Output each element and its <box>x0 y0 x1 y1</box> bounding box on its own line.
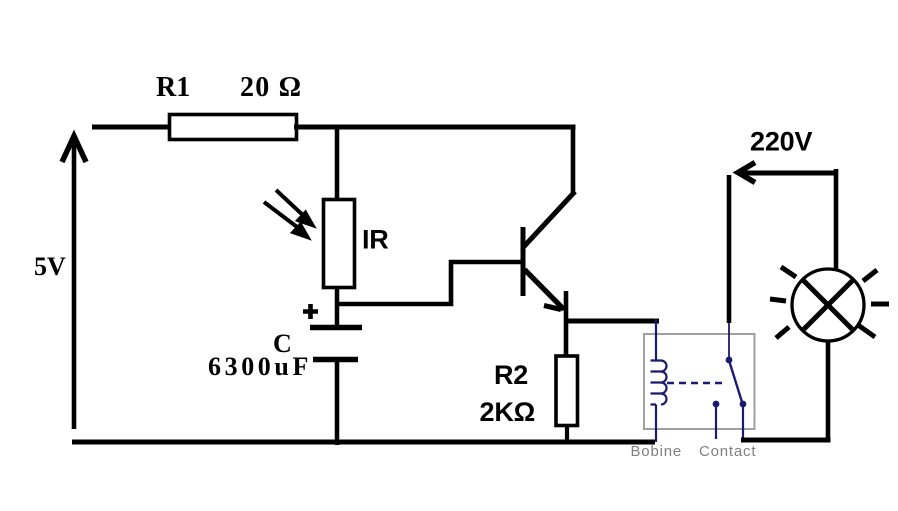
wire: 220V left drop to relay contact <box>727 175 732 323</box>
220V arrow <box>738 163 836 183</box>
svg-text:Bobine: Bobine <box>631 443 683 460</box>
wire: capacitor to ground rail <box>335 360 340 445</box>
wire: emitter down to R2 <box>564 291 569 358</box>
svg-text:220V: 220V <box>750 127 812 157</box>
relay switch: right contact dot <box>740 401 747 408</box>
5V source arrow <box>62 136 86 429</box>
svg-text:IR: IR <box>362 225 389 255</box>
light arrow 1 into IR <box>276 190 314 226</box>
svg-text:20 Ω: 20 Ω <box>240 72 302 103</box>
lamp ray lower-right <box>858 325 875 337</box>
relay box <box>644 334 755 429</box>
wire: 220V right drop to lamp <box>834 169 839 270</box>
wire: IR to capacitor top plate <box>335 286 340 327</box>
wire: junction drop to IR <box>335 127 340 201</box>
relay coil (Bobine) <box>651 319 667 442</box>
light arrow 2 into IR <box>264 202 309 238</box>
lamp ray lower-left <box>776 327 789 338</box>
wire: emitter node to relay coil <box>566 319 659 324</box>
wire: 5V feed to R1 <box>92 125 172 130</box>
wire: node to transistor base (with step) <box>337 262 521 304</box>
lamp L1 circle <box>792 269 864 341</box>
lamp ray left <box>770 299 786 301</box>
capacitor C plus sign <box>303 304 318 319</box>
transistor Q1 base bar <box>521 227 526 296</box>
relay switch: centre contact dot <box>713 401 720 408</box>
svg-text:6300uF: 6300uF <box>208 352 312 381</box>
transistor Q1 collector diagonal <box>524 192 576 248</box>
svg-text:Contact: Contact <box>699 443 756 460</box>
relay switch: right contact lead <box>742 406 744 438</box>
capacitor C top plate <box>310 325 362 331</box>
wire: collector riser to top rail <box>571 127 576 194</box>
photoresistor IR <box>324 200 355 288</box>
resistor R2 <box>556 356 578 426</box>
wire: lamp bottom riser <box>826 340 831 442</box>
resistor R1 <box>170 115 297 140</box>
svg-text:R1: R1 <box>156 72 190 103</box>
lamp ray right <box>871 302 889 307</box>
wire: relay contact to lamp (bottom right) <box>741 438 831 443</box>
ground rail (bottom wire) <box>72 440 655 445</box>
relay switch: pivot dot <box>726 357 733 364</box>
relay switch: centre contact lead <box>715 407 717 439</box>
svg-text:R2: R2 <box>494 360 528 390</box>
lamp L1 cross <box>803 280 853 330</box>
lamp ray upper-left <box>781 267 796 277</box>
wire: R2 to ground rail <box>565 424 569 444</box>
svg-text:2KΩ: 2KΩ <box>480 397 536 427</box>
svg-text:5V: 5V <box>34 252 66 281</box>
relay dashed link coil to contact <box>667 382 727 384</box>
relay switch: arm <box>730 362 743 402</box>
wire: top rail R1 to collector <box>294 125 576 130</box>
transistor Q1 emitter diagonal with arrowhead <box>525 270 565 310</box>
capacitor C bottom plate <box>313 357 358 363</box>
lamp ray upper-right <box>863 270 877 281</box>
relay switch: top lead <box>728 323 730 358</box>
